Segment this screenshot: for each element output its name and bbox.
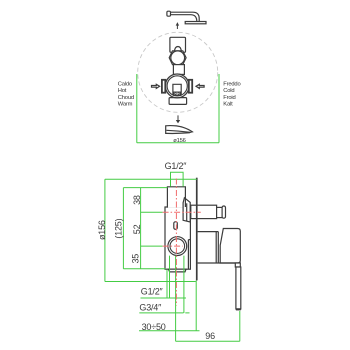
lever step (235, 263, 240, 267)
svg-text:ø156: ø156 (173, 138, 185, 144)
dim o156 bottom ext (105, 281, 196, 283)
shower arm tube (171, 12, 200, 21)
dim o156 top ext (105, 178, 197, 180)
hex nut (169, 51, 186, 65)
svg-text:30÷50: 30÷50 (142, 322, 166, 332)
left open arrow (152, 84, 160, 88)
lever bar (236, 267, 241, 309)
ext circle right (183, 256, 185, 313)
svg-text:Hot: Hot (118, 88, 127, 94)
bottom mounting box (169, 98, 187, 105)
ext plate down (195, 281, 197, 331)
cartridge band (174, 92, 181, 95)
30-50 line (139, 330, 200, 332)
spout inner line (166, 130, 190, 132)
flow arrow up (176, 22, 179, 29)
svg-text:Caldo: Caldo (118, 82, 132, 88)
lever tip (236, 308, 241, 310)
pipe edge through flange (184, 198, 186, 207)
valve body inner circle (167, 76, 187, 96)
trim plate dashed circle (138, 32, 218, 112)
cartridge dots (175, 93, 177, 95)
svg-text:52: 52 (132, 224, 142, 234)
dim ext 38-52 (141, 211, 163, 213)
body pipe (167, 187, 185, 208)
svg-text:96: 96 (205, 331, 215, 341)
outlet tip (222, 206, 225, 218)
svg-text:Choud: Choud (118, 95, 134, 101)
dim chain vertical (140, 188, 142, 269)
right open arrow (196, 84, 204, 88)
G1/2 underline (141, 297, 187, 299)
G3/4 underline (139, 312, 189, 314)
valve body outer circle (165, 74, 189, 98)
nut circle (171, 51, 185, 65)
flange inner line (186, 203, 188, 221)
body bottom step (169, 269, 187, 272)
left inlet port (162, 80, 165, 93)
outlet ring (217, 207, 223, 217)
body main (165, 207, 190, 269)
handle body (220, 229, 240, 264)
svg-text:Froid: Froid (223, 95, 235, 101)
ext port left (166, 269, 168, 298)
handle bottom line (198, 262, 241, 264)
G1/2 top bracket (171, 172, 184, 186)
dim 125 top ext (123, 187, 167, 189)
red port centerline (163, 211, 201, 213)
diameter bracket left (136, 74, 138, 143)
svg-text:Kalt: Kalt (223, 101, 233, 107)
ext axis down (175, 256, 177, 342)
dome inside pipe (174, 47, 181, 53)
svg-text:35: 35 (131, 254, 141, 264)
96 line (176, 340, 240, 342)
body inner edge (188, 240, 190, 270)
diameter bracket right (218, 74, 220, 143)
SIDE VIEW (97, 161, 241, 341)
down arrow to spout (176, 115, 180, 123)
side outlet cylinder (191, 205, 217, 218)
dim 125 vertical (122, 188, 124, 269)
escutcheon (198, 232, 219, 263)
svg-text:Warm: Warm (118, 101, 133, 107)
red axis vertical (175, 179, 177, 306)
red circle centerline (163, 245, 183, 247)
ext lever down (239, 311, 241, 341)
diameter bracket bottom (137, 142, 219, 144)
svg-text:38: 38 (132, 195, 142, 205)
dim ext 52-35 (141, 245, 163, 247)
svg-text:Cold: Cold (223, 88, 234, 94)
top pipe (170, 37, 186, 52)
shower arm flange (167, 11, 171, 16)
wall plate line (196, 178, 198, 281)
svg-text:G1/2″: G1/2″ (165, 161, 188, 171)
svg-text:ø156: ø156 (97, 220, 107, 240)
neck (173, 65, 184, 75)
right inlet port (189, 80, 192, 93)
svg-text:Freddo: Freddo (223, 82, 240, 88)
body slot (174, 222, 178, 230)
spout icon (166, 126, 193, 134)
svg-text:G3/4″: G3/4″ (139, 303, 162, 313)
bottom port inner circle (170, 239, 185, 254)
svg-text:(125): (125) (114, 218, 124, 238)
shower head plate (185, 22, 206, 24)
FRONT VIEW (118, 11, 241, 144)
ext circle left (169, 256, 171, 298)
dim o156 vertical (104, 179, 106, 281)
svg-text:G1/2″: G1/2″ (141, 286, 164, 296)
side outlet flange (183, 198, 190, 222)
spout tip shade (186, 132, 192, 134)
cartridge (173, 84, 181, 94)
dim 125 bottom ext (123, 268, 165, 270)
bottom port outer circle (168, 237, 187, 256)
